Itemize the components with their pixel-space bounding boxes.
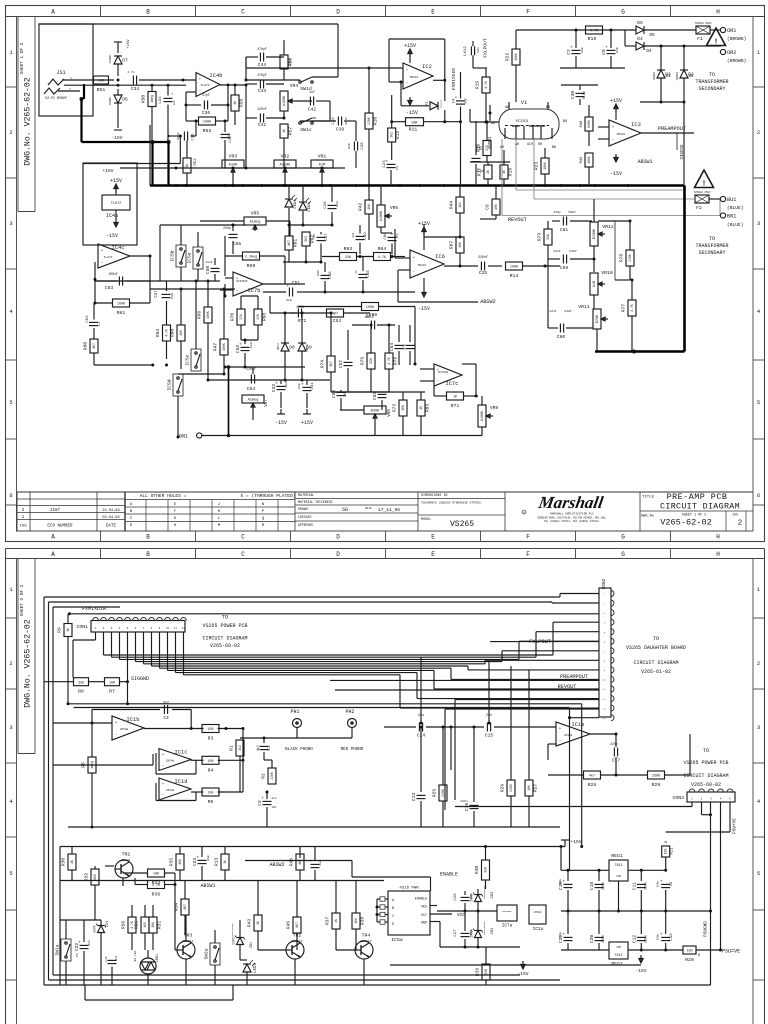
svg-text:R52: R52 [194,158,198,166]
svg-text:BG: BG [563,120,567,124]
svg-text:220n: 220n [601,935,605,943]
svg-text:100: 100 [664,849,668,855]
svg-text:REG2: REG2 [611,961,623,967]
svg-text:R16: R16 [476,144,482,153]
svg-text:-: - [612,138,615,143]
svg-text:BH: BH [538,142,542,146]
svg-text:R37: R37 [325,917,331,926]
svg-text:1N914: 1N914 [277,343,280,351]
svg-text:IC1a: IC1a [533,927,544,932]
svg-text:C3: C3 [163,716,169,721]
svg-text:3K3: 3K3 [304,236,308,242]
svg-text:R20: R20 [685,957,694,963]
svg-text:D: D [336,534,340,541]
svg-text:LM348: LM348 [166,789,175,792]
svg-text:R45: R45 [286,921,292,930]
svg-text:1N914: 1N914 [306,344,309,352]
svg-text:!: ! [702,181,707,189]
svg-text:DATE: DATE [365,507,372,510]
svg-text:22uF: 22uF [465,98,468,104]
svg-text:4n7: 4n7 [256,745,260,751]
svg-text:R9: R9 [57,627,63,633]
svg-text:100K: 100K [587,156,591,164]
svg-text:-: - [559,739,562,744]
svg-text:22u: 22u [88,940,91,946]
svg-text:SW1c: SW1c [300,127,312,133]
svg-text:D: D [336,9,340,16]
svg-text:LM348: LM348 [564,734,573,737]
svg-text:+: + [286,284,289,289]
svg-text:C63: C63 [105,285,114,291]
svg-text:100K: 100K [514,53,518,61]
svg-text:5V6: 5V6 [94,925,98,933]
svg-text:4.7n: 4.7n [127,71,134,74]
svg-text:LK12: LK12 [464,46,468,56]
svg-text:22K: 22K [239,314,243,320]
svg-text:CON1: CON1 [76,624,88,630]
svg-text:VR11: VR11 [578,304,590,310]
svg-text:-: - [406,81,409,86]
svg-text:3: 3 [757,724,760,731]
svg-text:CON2: CON2 [602,578,607,589]
svg-text:10K: 10K [527,785,531,791]
svg-text:-15V: -15V [111,135,122,141]
svg-text:VS265 POWER PCB: VS265 POWER PCB [202,623,247,629]
svg-text:4K7: 4K7 [92,343,96,349]
svg-text:C33: C33 [159,96,163,104]
svg-text:470p: 470p [553,211,560,214]
svg-text:ECC83: ECC83 [516,120,529,124]
svg-text:R2: R2 [261,773,267,779]
svg-text:-: - [162,764,165,769]
svg-text:C9: C9 [670,881,674,886]
svg-text:CHECKED: CHECKED [298,515,311,519]
svg-text:TRANSFORMER: TRANSFORMER [695,243,728,249]
svg-text:MPSA13: MPSA13 [183,940,194,943]
svg-text:C64: C64 [247,386,256,392]
svg-text:B: B [146,551,150,558]
svg-text:220nF: 220nF [257,107,267,111]
svg-text:+15V: +15V [127,39,131,49]
svg-text:VR9: VR9 [490,405,499,411]
svg-text:330K: 330K [652,775,661,779]
svg-text:100K: 100K [510,266,519,270]
svg-text:R83: R83 [425,404,431,413]
svg-text:SW1a: SW1a [55,944,61,955]
svg-text:C27: C27 [454,929,458,937]
svg-text:T250mA 250V: T250mA 250V [693,191,711,194]
svg-text:B20K: B20K [371,410,380,414]
svg-text:R75: R75 [360,357,366,366]
svg-text:100K: 100K [222,343,226,351]
svg-text:SECONDARY: SECONDARY [698,250,725,256]
svg-text:C44: C44 [258,62,267,68]
svg-text:IC2: IC2 [422,64,432,70]
svg-text:22uF: 22uF [616,46,619,53]
svg-text:10K: 10K [367,204,371,210]
svg-text:TR3: TR3 [184,933,193,939]
svg-text:R60: R60 [170,329,176,338]
svg-text:100: 100 [207,760,213,764]
svg-text:4.7K: 4.7K [165,329,169,337]
svg-text:-: - [413,270,416,275]
svg-text:100: 100 [207,728,213,732]
svg-text:JS1: JS1 [56,70,65,76]
svg-text:ABSW1: ABSW1 [637,159,652,165]
svg-text:A: A [51,534,55,541]
svg-text:TR1: TR1 [122,852,131,858]
svg-text:TEL (01908) 375411, FAX (01908: TEL (01908) 375411, FAX (01908) 376118. [544,520,600,523]
svg-text:22uF: 22uF [205,261,212,264]
svg-text:VR4: VR4 [290,83,299,89]
svg-text:+: + [275,382,278,387]
svg-text:-15V: -15V [406,110,418,116]
svg-text:C1: C1 [266,745,272,751]
svg-text:0K5: 0K5 [93,874,97,880]
svg-text:IC4c: IC4c [112,245,125,251]
svg-text:D8: D8 [289,345,295,351]
svg-text:VR1: VR1 [318,154,327,160]
svg-text:R44: R44 [449,201,455,210]
svg-text:22uF: 22uF [581,46,584,53]
svg-text:ZD4: ZD4 [105,921,109,927]
svg-text:R43: R43 [247,919,253,928]
svg-text:33R: 33R [484,867,488,873]
svg-text:IC5a: IC5a [391,937,403,943]
svg-text:MARSHALL AMPLIFICATION PLC: MARSHALL AMPLIFICATION PLC [550,513,594,516]
svg-text:600K: 600K [587,120,591,128]
svg-text:100n: 100n [477,47,480,53]
svg-text:R19: R19 [588,36,597,42]
svg-text:4k7: 4k7 [589,774,595,779]
svg-text:SV6: SV6 [471,930,475,938]
svg-text:MPSA13: MPSA13 [361,940,372,943]
svg-text:5: 5 [757,399,760,406]
svg-text:M5201: M5201 [617,133,626,136]
svg-text:F: F [526,534,530,541]
svg-text:(BROWN): (BROWN) [727,58,746,64]
svg-text:LM348: LM348 [166,760,175,763]
svg-text:1meg: 1meg [90,761,94,769]
svg-text:+: + [171,93,173,97]
svg-text:R38: R38 [360,917,366,926]
svg-text:X = (THROUGH PLATED): X = (THROUGH PLATED) [240,493,295,499]
svg-text:B20K: B20K [596,314,600,323]
svg-text:-15V: -15V [275,420,287,426]
svg-text:CIRCUIT DIAGRAM: CIRCUIT DIAGRAM [202,636,247,642]
svg-text:C30: C30 [570,91,576,100]
svg-text:TOLERANCE (UNLESS OTHERWISE ST: TOLERANCE (UNLESS OTHERWISE STATED) [421,501,482,505]
svg-text:ZD2: ZD2 [491,927,495,935]
svg-text:R70: R70 [230,313,236,322]
svg-text:1N4007: 1N4007 [653,71,656,80]
svg-text:1meg: 1meg [150,95,154,103]
svg-text:+15V: +15V [404,43,416,49]
svg-text:C58: C58 [369,312,378,318]
svg-text:R31: R31 [157,921,163,930]
svg-text:10K: 10K [401,405,405,411]
svg-text:+15V: +15V [110,178,122,184]
svg-text:IC3: IC3 [631,122,641,128]
svg-text:10K: 10K [458,242,462,248]
svg-text:1K: 1K [502,170,506,174]
svg-text:470pF: 470pF [257,47,267,51]
svg-text:R30: R30 [61,858,67,867]
svg-text:10nF: 10nF [336,200,339,207]
svg-text:1K: 1K [70,860,74,864]
svg-text:TO: TO [709,72,715,78]
svg-text:R53: R53 [203,128,212,134]
svg-text:TO: TO [653,636,659,642]
svg-text:+: + [660,880,663,885]
svg-text:ALL OTHER HOLES =: ALL OTHER HOLES = [140,493,187,499]
svg-text:SHEET 1 OF 2: SHEET 1 OF 2 [20,42,25,74]
svg-text:TO: TO [709,236,715,242]
svg-text:DIMENSIONS IN: DIMENSIONS IN [421,494,447,498]
svg-text:1K: 1K [185,164,189,168]
svg-text:56K: 56K [411,121,418,125]
svg-text:D6: D6 [122,97,128,103]
svg-text:R27: R27 [533,784,539,793]
svg-text:1K: 1K [233,101,237,105]
svg-text:4n7: 4n7 [163,701,169,705]
svg-text:C: C [392,915,394,919]
svg-text:1uF: 1uF [309,90,315,94]
svg-text:C12: C12 [631,935,637,944]
svg-text:IC5c: IC5c [185,354,191,365]
svg-text:VR7: VR7 [265,399,269,407]
svg-text:B: B [392,907,394,911]
svg-text:V265-60-02: V265-60-02 [691,782,721,788]
svg-text:Marshall: Marshall [536,493,605,512]
svg-text:220K: 220K [367,117,371,125]
svg-text:BZX079C5V6: BZX079C5V6 [483,921,486,935]
svg-text:R69: R69 [247,263,256,269]
svg-text:+: + [562,933,565,938]
svg-text:1uF: 1uF [115,955,118,960]
svg-text:PH1: PH1 [290,709,299,715]
svg-text:C18: C18 [589,882,595,891]
svg-text:C34: C34 [131,86,140,92]
svg-text:C26: C26 [454,893,458,901]
svg-text:R26: R26 [500,784,506,793]
svg-text:IC7b: IC7b [248,288,261,294]
svg-text:R23: R23 [534,162,540,171]
svg-text:100K: 100K [117,303,126,307]
svg-text:1N4007: 1N4007 [109,96,112,106]
svg-text:4K7: 4K7 [183,904,187,910]
svg-text:TO: TO [222,615,228,621]
svg-text:SECONDARY: SECONDARY [698,86,725,92]
svg-text:220n: 220n [171,292,174,299]
svg-text:3: 3 [9,220,12,227]
svg-text:C54: C54 [389,343,395,352]
svg-text:R8: R8 [78,689,84,695]
svg-text:1K5: 1K5 [143,922,147,928]
svg-text:G: G [621,551,625,558]
svg-text:4K7: 4K7 [332,313,338,317]
svg-text:D2: D2 [688,75,694,79]
svg-text:IC5e: IC5e [187,252,193,263]
svg-text:D5: D5 [637,20,643,26]
svg-text:100u: 100u [559,931,562,938]
svg-text:G: G [621,9,625,16]
svg-text:IC5b: IC5b [170,250,176,261]
svg-text:R14: R14 [510,273,519,279]
svg-text:LM348: LM348 [534,911,542,914]
svg-text:6.8n: 6.8n [582,91,586,99]
svg-text:C36: C36 [202,110,211,116]
svg-text:17_11_95: 17_11_95 [378,507,400,513]
svg-text:VS265: VS265 [450,520,474,529]
svg-text:100K: 100K [206,311,210,319]
svg-text:BZX079C5V6: BZX079C5V6 [231,923,234,937]
svg-text:A: A [51,9,55,16]
svg-text:R18: R18 [508,168,514,177]
svg-text:C48: C48 [367,270,371,278]
svg-text:100uF: 100uF [108,272,118,276]
svg-text:H: H [716,551,720,558]
svg-text:R71: R71 [451,403,460,409]
svg-text:R11: R11 [409,127,418,133]
svg-text:T250mA 250V: T250mA 250V [694,22,712,25]
svg-text:DRAWN: DRAWN [298,507,308,511]
svg-text:R21: R21 [671,847,675,855]
svg-text:R28: R28 [588,782,597,788]
svg-text:10K: 10K [179,330,183,336]
svg-text:10K: 10K [109,681,116,685]
svg-text:VR10: VR10 [601,270,613,276]
svg-text:TITLE: TITLE [642,496,655,500]
svg-text:SHEET 2 OF 2: SHEET 2 OF 2 [20,584,25,616]
svg-text:+15V: +15V [570,839,581,845]
svg-text:R49: R49 [580,156,584,164]
svg-text:C46: C46 [329,271,333,279]
svg-text:+: + [239,343,242,348]
svg-text:MODEL: MODEL [421,518,431,522]
svg-text:SV6: SV6 [471,894,475,902]
svg-text:100: 100 [686,950,692,954]
svg-text:220n: 220n [643,935,647,943]
svg-text:B: B [146,534,150,541]
svg-text:MPSA13: MPSA13 [292,940,303,943]
svg-text:1N4148: 1N4148 [440,99,443,108]
svg-text:F1: F1 [697,36,703,42]
svg-text:COM: COM [616,875,621,878]
svg-text:COM: COM [616,946,621,949]
svg-text:4.7K: 4.7K [590,30,599,34]
svg-text:V265-60-02: V265-60-02 [210,643,240,649]
svg-text:1W: 1W [698,953,701,957]
svg-text:-: - [101,261,104,266]
svg-text:!: ! [714,39,719,47]
svg-text:PSU=VE: PSU=VE [722,949,740,955]
svg-text:+: + [196,856,199,861]
svg-text:G: G [621,534,625,541]
svg-text:C11: C11 [631,882,637,891]
svg-text:PSU+VE: PSU+VE [733,818,738,834]
svg-text:220n: 220n [643,882,647,890]
svg-text:E: E [431,551,435,558]
svg-text:OR1: OR1 [727,28,736,34]
svg-text:1K: 1K [334,919,338,923]
svg-text:R79: R79 [537,233,543,242]
svg-text:ABSW2: ABSW2 [269,862,284,868]
svg-text:+: + [301,383,304,388]
svg-text:C31: C31 [311,382,315,390]
svg-text:A1M: A1M [593,281,597,287]
svg-text:7812: 7812 [614,864,622,868]
svg-text:D: D [392,923,394,927]
svg-text:MATERIAL THICKNESS: MATERIAL THICKNESS [298,500,333,504]
svg-text:C42: C42 [308,107,317,113]
svg-text:REG1: REG1 [611,853,623,859]
svg-text:F: F [526,551,530,558]
svg-text:ACH: ACH [527,142,533,146]
svg-text:SHEET 1 OF 2: SHEET 1 OF 2 [682,514,706,518]
svg-text:PH2: PH2 [345,709,354,715]
svg-text:AH: AH [515,143,519,147]
svg-text:R63: R63 [344,246,353,252]
svg-text:4.7K: 4.7K [130,921,134,929]
svg-text:H: H [716,534,720,541]
svg-text:RC4558P: RC4558P [237,280,248,283]
svg-text:R32: R32 [84,873,90,882]
svg-text:R25: R25 [432,789,438,798]
svg-text:A100K: A100K [283,95,287,106]
svg-text:-15V: -15V [610,171,622,177]
svg-text:33R: 33R [484,969,488,975]
svg-text:FXLPOUT: FXLPOUT [529,639,551,645]
svg-text:R3: R3 [208,736,214,742]
svg-text:4K7: 4K7 [329,361,333,367]
svg-text:R42: R42 [358,203,364,212]
svg-text:4.7K: 4.7K [387,357,391,365]
svg-text:(BLUE): (BLUE) [727,205,744,211]
svg-text:IC1e: IC1e [572,722,585,728]
svg-text:B: B [146,9,150,16]
svg-text:R39: R39 [475,968,481,977]
svg-text:VEE: VEE [421,906,427,910]
svg-text:VR8: VR8 [388,409,392,417]
svg-text:1uF: 1uF [173,100,176,105]
svg-text:4316 PWR: 4316 PWR [399,887,419,891]
svg-text:C40: C40 [229,135,233,143]
svg-text:1N4007: 1N4007 [109,54,112,64]
svg-text:R50: R50 [141,95,147,104]
svg-text:V265-61-02: V265-61-02 [641,669,671,675]
svg-text:4K7: 4K7 [287,240,291,246]
svg-text:R77: R77 [621,304,627,313]
svg-text:C45: C45 [105,956,108,962]
svg-text:22K: 22K [256,314,260,320]
svg-text:1nF: 1nF [364,316,370,319]
svg-text:R56: R56 [121,921,127,930]
svg-text:M5201: M5201 [410,76,419,79]
svg-text:E: E [431,534,435,541]
svg-text:D7: D7 [122,58,128,64]
svg-text:ISS: ISS [732,513,738,517]
svg-text:IC1b: IC1b [127,717,140,723]
svg-text:IC1d: IC1d [175,779,188,785]
svg-text:S2-PC MONOP: S2-PC MONOP [45,96,67,100]
svg-text:GND: GND [421,922,427,926]
svg-text:+15V: +15V [610,98,622,104]
svg-text:ENABLE: ENABLE [415,898,427,902]
svg-text:100: 100 [207,792,213,796]
svg-text:TR4: TR4 [362,933,371,939]
svg-text:C41: C41 [258,122,267,128]
